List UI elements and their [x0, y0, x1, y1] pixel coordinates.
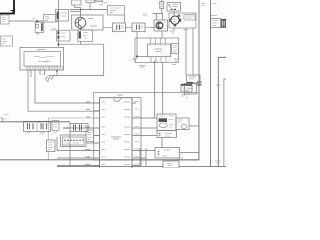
wire mic bus 2	[192, 28, 194, 75]
U2 waveform squiggles	[34, 56, 54, 62]
buzzer inner marks	[173, 19, 177, 21]
small box right of LED row	[52, 121, 59, 131]
capacitor C3 box	[78, 30, 93, 42]
transistor Q1 box	[72, 15, 103, 30]
diode D1 body dark	[57, 12, 59, 20]
capacitor C4 box	[113, 23, 126, 32]
wire buzzer top	[173, 11, 175, 16]
label top right A	[201, 4, 205, 6]
tick	[69, 122, 71, 126]
tick on bus	[198, 81, 201, 85]
IC1 name text	[111, 137, 121, 139]
relay circle	[182, 124, 187, 129]
label left rail	[2, 115, 9, 120]
wire with arrow into U2	[58, 41, 80, 44]
wire LCD to IC 1	[94, 135, 100, 137]
LED block row	[24, 121, 51, 131]
wire	[75, 5, 81, 8]
wire mic bus 1	[185, 28, 187, 75]
wire lower parallel	[70, 11, 81, 13]
hatch below buzzer	[173, 28, 175, 30]
resistor box RS	[86, 130, 94, 142]
wire pin1 long route	[28, 70, 100, 111]
wire VCC horizontal	[9, 20, 44, 22]
wire right edge 2	[224, 79, 226, 167]
LCD inner box	[63, 137, 85, 145]
wire U4 out 1	[154, 63, 156, 119]
U4 label	[155, 49, 162, 52]
R3 label above	[99, 3, 107, 5]
capacitor C1 box	[35, 22, 44, 32]
IC1 body box	[100, 98, 133, 170]
wire U4 out 2	[162, 63, 164, 115]
transistor Q2 box	[154, 20, 168, 31]
label below buzzer box	[184, 29, 189, 31]
label 27	[174, 58, 179, 62]
buzzer label box	[184, 15, 195, 21]
wire	[161, 31, 163, 38]
U4 top pin ticks	[151, 38, 166, 44]
ground hatch U4	[133, 58, 137, 62]
wire vertical C6 down	[69, 132, 71, 167]
ground below C1	[36, 33, 40, 34]
Q2 label left	[142, 14, 148, 16]
wire into U4	[137, 55, 148, 57]
op-amp U2 outer box	[20, 48, 64, 71]
wire pin2 long route	[35, 70, 100, 103]
label top right B	[213, 3, 217, 5]
wire relay right	[189, 125, 199, 127]
wire R5 stubs	[161, 0, 163, 14]
capacitor bank C6 box	[70, 124, 88, 132]
IC1 label above	[117, 94, 123, 96]
op-amp U2 inner box	[24, 52, 61, 67]
U2 title	[37, 49, 45, 51]
wire to bus	[197, 81, 199, 83]
tick on bus 2	[217, 84, 220, 86]
wire collector	[80, 8, 82, 18]
wire vertical x140	[139, 148, 141, 167]
main supply bus wire	[70, 9, 108, 11]
polarity marks	[66, 127, 71, 130]
microphone MK1 box	[187, 75, 201, 83]
IC1 left outside labels	[85, 102, 90, 165]
capacitor C5 box right of U4	[172, 44, 179, 54]
node pin stub	[154, 61, 156, 62]
header box P3	[96, 0, 103, 2]
relay K1 box	[176, 118, 189, 130]
wire pin4	[39, 70, 41, 75]
header box P1	[72, 0, 81, 5]
node dot U4 in	[136, 55, 138, 57]
ground LED row	[26, 132, 45, 135]
wire RB6	[57, 165, 100, 167]
U2 pin cells	[26, 66, 62, 69]
hatch below crystal	[183, 93, 190, 96]
IC1 notch	[113, 98, 120, 102]
cap box U7	[157, 131, 177, 138]
LCD module box	[61, 135, 87, 147]
label above connector	[211, 15, 217, 17]
transistor Q1 symbol	[75, 17, 86, 28]
label bottom right	[215, 161, 221, 163]
wire pin5	[44, 70, 46, 75]
wire vertical join	[56, 137, 58, 151]
resistor R4 box	[132, 23, 145, 32]
diode D1 box	[56, 10, 69, 22]
IC1 left pin stubs	[94, 103, 100, 166]
resistor R6 vertical wire	[47, 118, 49, 160]
U4 sub label below	[139, 65, 146, 67]
hatch below R2	[52, 28, 57, 31]
switch SW1 box	[184, 84, 196, 95]
speaker box SP1	[155, 148, 180, 159]
J1 pin mark	[11, 11, 14, 14]
buzzer LS1 enclosure	[169, 13, 196, 28]
ground U2	[45, 76, 54, 81]
label box PWR	[0, 15, 9, 24]
wire IC to EEPROM2	[132, 127, 157, 129]
wire	[103, 26, 156, 28]
node dot	[80, 9, 82, 11]
wire C3 to ground route	[48, 44, 103, 75]
Q1 label NPN	[88, 19, 97, 27]
wire vertical x146	[145, 148, 147, 167]
node dot	[0, 127, 1, 129]
node dot Q1 base	[80, 28, 82, 30]
wire RB4	[57, 150, 100, 152]
U4 bottom pin ticks	[151, 57, 166, 63]
wire right edge	[218, 57, 226, 167]
terminal box bottom	[163, 161, 179, 168]
wire vertical from U7	[161, 138, 163, 148]
wire pin3	[30, 70, 32, 77]
wire IC to EEPROM	[132, 117, 157, 119]
wire keypad right	[180, 152, 199, 154]
wire base	[57, 0, 59, 46]
long bus wire right 1	[198, 0, 200, 160]
wire IC pin to xtal route	[132, 98, 141, 167]
resistor R5 vertical	[160, 1, 164, 8]
wire bottom rail 2	[0, 159, 199, 161]
wire RA0	[48, 117, 99, 119]
IC1 left pin numbers	[102, 102, 106, 165]
wire from C4/R4 down to ground	[136, 32, 138, 57]
driver dark blob	[159, 118, 167, 122]
resistor R3 box	[108, 6, 125, 15]
IC1 right pin labels	[135, 102, 140, 165]
wire LCD to IC 2	[86, 142, 100, 144]
IC1 enclosure box	[94, 92, 199, 160]
wire	[123, 15, 125, 23]
header box P2	[86, 0, 95, 3]
node junction A	[36, 20, 38, 22]
microphone dark element	[187, 82, 193, 84]
wire pin6	[56, 70, 58, 76]
resistor R2 box	[44, 15, 58, 23]
buzzer LS1 circle	[171, 16, 179, 24]
connector block right dark	[221, 19, 226, 27]
wire Q2 top	[153, 14, 164, 21]
capacitor C2 box	[57, 30, 71, 41]
label above C1	[32, 18, 36, 20]
pin cell dots	[27, 66, 61, 68]
ground MK1	[181, 94, 188, 98]
polarity marks SP1	[179, 157, 185, 160]
crystal X1 box	[181, 84, 192, 92]
small box left mid	[0, 36, 12, 46]
wire IC to box row3	[132, 135, 157, 137]
audio amp U4 outer box	[135, 38, 179, 63]
wire bottom rail 1	[0, 121, 70, 123]
regulator U3 box	[167, 2, 181, 11]
resistor R6 box	[47, 140, 56, 152]
audio amp U4 body	[148, 44, 171, 57]
buzzer terminals	[170, 19, 172, 22]
node dot	[56, 70, 58, 72]
EEPROM U5 box	[157, 114, 176, 131]
wire IC right to x140	[132, 151, 155, 166]
long bus wire right 2	[210, 0, 212, 167]
wire RB0	[64, 127, 100, 129]
stub mark left	[0, 118, 3, 122]
driver oval	[159, 123, 167, 128]
wire bottom rail 3	[57, 165, 226, 167]
transistor Q2 symbol	[156, 22, 163, 29]
IC1 right pin numbers	[124, 102, 130, 165]
connector J1 (thick black box top-left)	[0, 0, 14, 14]
wire RB5	[57, 157, 100, 159]
wire	[89, 3, 91, 10]
